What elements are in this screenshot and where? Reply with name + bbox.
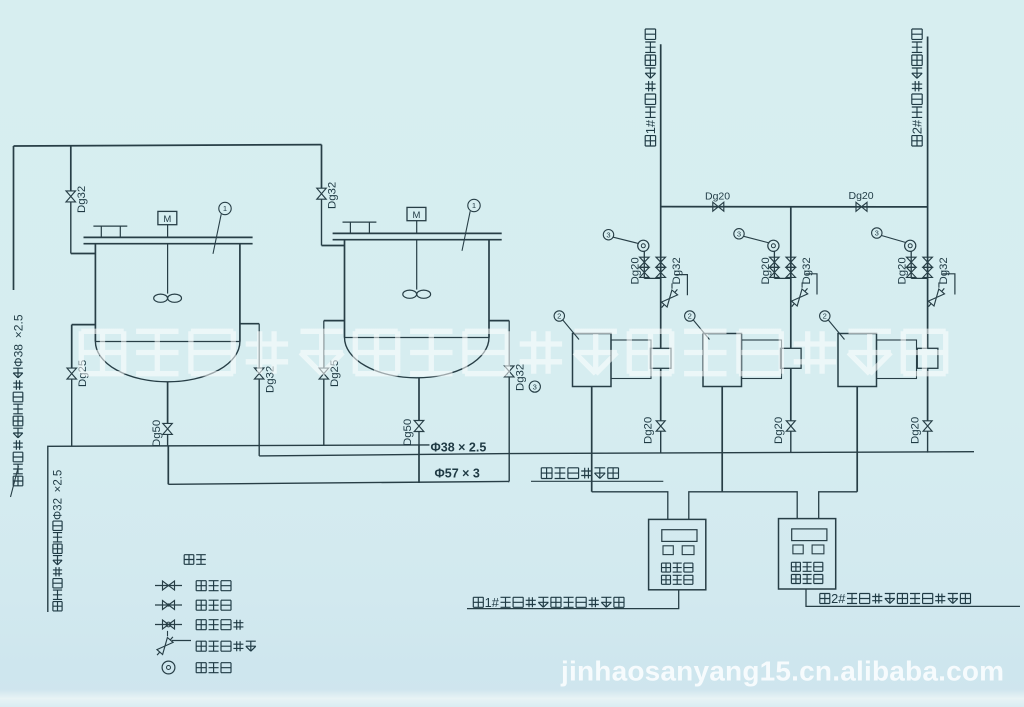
valve Dg20 overhead left <box>713 202 724 211</box>
wire: top feed header <box>14 145 322 146</box>
svg-text:×2.5: ×2.5 <box>53 470 65 493</box>
agitator impeller tank T2 <box>403 290 417 298</box>
pressure-gauge valves Dg20 <box>770 257 780 267</box>
svg-text:Dg20: Dg20 <box>849 190 874 202</box>
label: ammonia gas or liquid from cylinders F32x2.5 (rotated) <box>53 602 62 611</box>
label: feedback info from 1# deaerator drain <box>473 597 483 607</box>
wire: pump P3 discharge down <box>927 368 929 420</box>
riser isolation valves Dg32 (x=660.7) <box>656 257 666 267</box>
riser isolation valves Dg32 (x=790.8) <box>786 257 796 267</box>
label: on-site demin water or condensate F38x2.5 (rotated) <box>13 476 23 486</box>
legend stop valve symbol <box>155 585 182 587</box>
leader to gauge pump2 <box>744 236 770 243</box>
svg-text:Dg20: Dg20 <box>910 417 922 444</box>
wire: control run pump1 to controller1 <box>592 492 668 520</box>
tank T1 shell <box>94 244 96 342</box>
wire: feedback signal line 2 <box>806 589 1020 607</box>
callout circle 1 tank T1 <box>219 202 231 214</box>
wire: pump P2 control drop <box>721 387 723 492</box>
wire: pump suction header C <box>168 481 509 484</box>
riser isolation valves Dg32 (x=927.6) <box>923 257 933 267</box>
agitator impeller tank T1 <box>154 294 168 302</box>
wire: demin-water inlet drop <box>13 146 15 290</box>
svg-text:2: 2 <box>688 312 692 321</box>
agitator shaft tank T1 <box>167 244 169 294</box>
svg-text:Dg32: Dg32 <box>938 257 950 284</box>
regulator ACU1 label line1 <box>662 563 671 572</box>
tank T1 dished bottom <box>95 342 240 382</box>
valve Dg20 overhead right <box>856 202 867 211</box>
callout circle 2 pump P2 <box>685 311 695 321</box>
label: to 1# boiler deaerator downpipe (rotated) <box>645 136 655 146</box>
svg-text:Dg20: Dg20 <box>705 191 730 203</box>
valve Dg20 pump P3 discharge <box>923 421 932 431</box>
tank T1 lid nozzle <box>100 226 102 237</box>
svg-text:Dg32: Dg32 <box>327 182 339 209</box>
pressure-gauge valves Dg20 <box>640 257 650 267</box>
callout circle 3 near tank T2 right valve <box>529 381 540 392</box>
svg-text:Dg20: Dg20 <box>643 417 655 444</box>
legend spring safety valve text <box>196 641 206 651</box>
wire: tank1 feed horizontal <box>71 253 96 255</box>
automatic regulator ACU2 box <box>779 519 836 589</box>
svg-text:1#: 1# <box>643 119 658 134</box>
valve Dg25 tank T1 left <box>67 368 77 379</box>
svg-text:Φ38: Φ38 <box>11 344 25 367</box>
tank T2 lid <box>333 232 502 234</box>
regulator ACU1 display <box>662 530 697 542</box>
regulator ACU2 buttons <box>793 545 803 554</box>
wire: tank T1 left branch down <box>71 325 73 369</box>
svg-text:×2.5: ×2.5 <box>11 314 25 338</box>
tank T2 shell <box>344 240 346 338</box>
watermark: company name <box>81 331 123 373</box>
wire: tank2 feed drop <box>321 145 323 189</box>
wire: controller1 to controller2 run via pump2 <box>689 492 797 520</box>
regulator ACU1 label line2 <box>662 575 671 584</box>
wire: overhead header <box>661 206 928 208</box>
svg-text:Φ32: Φ32 <box>53 498 65 520</box>
leader line callout 1 <box>213 214 221 254</box>
wire: controller2 right stub to pump3 <box>819 492 858 519</box>
svg-text:2: 2 <box>823 312 827 321</box>
pressure gauge <box>905 240 916 251</box>
gauge branch pipe <box>774 277 790 279</box>
underline of blowdown label <box>531 480 663 482</box>
tank T2 dished bottom <box>345 338 490 378</box>
wire: tank T1 bottom outlet <box>167 382 169 424</box>
svg-text:Dg20: Dg20 <box>773 417 785 444</box>
wire: tank T2 left branch down <box>323 321 325 369</box>
node: ammonia feed corner <box>48 445 430 612</box>
svg-text:Φ57 × 3: Φ57 × 3 <box>435 467 480 481</box>
svg-text:jinhaosanyang15.cn.alibaba.com: jinhaosanyang15.cn.alibaba.com <box>560 656 1004 687</box>
legend pressure gauge text <box>196 663 206 673</box>
safety valve outlet bracket <box>942 274 955 295</box>
leader to gauge pump3 <box>882 236 907 243</box>
svg-text:Dg32: Dg32 <box>76 186 88 213</box>
metering pump P1 gear housing <box>611 340 651 379</box>
svg-text:Dg50: Dg50 <box>151 420 163 447</box>
svg-text:Dg50: Dg50 <box>402 419 414 446</box>
leader callout 2 pump P1 <box>563 320 579 340</box>
agitator motor M tank T1 <box>158 211 177 224</box>
valve Dg32 tank2 feed <box>317 188 326 199</box>
svg-text:3: 3 <box>737 230 741 239</box>
metering pump P3 head <box>917 348 938 368</box>
legend gauge valve symbol <box>155 624 182 626</box>
svg-text:M: M <box>412 210 420 221</box>
safety valve pump2 riser <box>792 289 808 306</box>
metering pump P1 motor body <box>573 334 612 387</box>
leader callout 2 pump P3 <box>828 320 844 340</box>
svg-text:Φ38 × 2.5: Φ38 × 2.5 <box>431 441 487 455</box>
legend pressure gauge symbol <box>162 661 175 674</box>
valve Dg32 tank T1 right <box>254 368 264 379</box>
wire: tank T2 right branch down <box>508 321 510 366</box>
automatic regulator ACU1 box <box>649 519 706 589</box>
pressure gauge <box>768 240 779 251</box>
callout circle 1 tank T2 <box>468 199 480 211</box>
wire: tank T2 left side stub <box>324 320 345 322</box>
valve Dg32 tank1 feed <box>66 191 76 202</box>
legend stop valve text <box>196 581 206 591</box>
tank T2 lid nozzle <box>349 222 351 233</box>
safety valve pump1 riser <box>661 290 677 307</box>
metering pump P1 head <box>650 348 671 368</box>
svg-text:1: 1 <box>223 204 227 213</box>
leader line callout 1 tank T2 <box>462 211 470 251</box>
wire: tank2 feed horizontal <box>322 245 345 247</box>
svg-text:Dg20: Dg20 <box>630 257 642 284</box>
label: feedback info from 2# deaerator drain <box>820 594 830 604</box>
gauge branch pipe <box>644 277 660 279</box>
legend check valve text <box>196 600 206 610</box>
legend spring safety valve symbol <box>157 638 173 655</box>
wire: riser to 2# boiler deaerator <box>927 37 929 349</box>
metering pump P3 motor body <box>838 334 877 387</box>
valve Dg32 tank T2 right <box>504 366 514 377</box>
wire: tank T1 left side stub <box>72 324 96 326</box>
leader callout 2 pump P2 <box>693 320 709 340</box>
safety valve outlet bracket <box>805 274 817 295</box>
wire: tank T1 right side stub <box>240 323 259 325</box>
regulator ACU2 label line1 <box>791 562 800 571</box>
valve Dg50 tank T1 outlet <box>163 423 173 434</box>
svg-text:2#: 2# <box>910 119 925 134</box>
label: blowdown to sewer <box>541 468 552 479</box>
safety valve pump3 riser <box>928 289 944 306</box>
svg-text:3: 3 <box>606 230 610 239</box>
callout circle 2 pump P3 <box>820 311 830 321</box>
metering pump P2 gear housing <box>742 340 782 379</box>
metering pump P2 head <box>781 348 802 368</box>
svg-text:Dg32: Dg32 <box>801 257 813 284</box>
wire: pump P1 discharge down <box>660 368 662 420</box>
svg-text:1: 1 <box>472 201 476 210</box>
wire: tank T2 bottom outlet <box>418 378 420 421</box>
callout circle 3 gauge pump1 <box>603 230 613 240</box>
svg-text:M: M <box>163 214 171 225</box>
callout circle 2 pump P1 <box>554 311 564 321</box>
label: to 2# boiler deaerator downpipe (rotated) <box>912 136 922 146</box>
regulator ACU2 display <box>792 529 827 541</box>
wire: riser to 1# boiler deaerator <box>660 44 662 349</box>
valve Dg20 pump P1 discharge <box>656 421 665 431</box>
wire: pump P3 control drop <box>856 387 858 492</box>
legend title <box>184 555 194 565</box>
tank T1 lid <box>84 236 253 238</box>
svg-text:3: 3 <box>533 382 537 391</box>
svg-text:Dg32: Dg32 <box>671 257 683 284</box>
leader to gauge pump1 <box>613 237 639 243</box>
valve Dg20 pump P2 discharge <box>786 421 795 431</box>
svg-text:2: 2 <box>557 312 561 321</box>
gauge branch pipe <box>911 277 927 279</box>
svg-text:1#: 1# <box>485 595 500 610</box>
svg-text:Dg20: Dg20 <box>897 257 909 284</box>
svg-text:Dg20: Dg20 <box>760 257 772 284</box>
wire: tank T1 right branch down <box>258 324 260 368</box>
callout circle 3 gauge pump2 <box>734 229 744 239</box>
agitator motor M tank T2 <box>407 207 426 220</box>
wire: feedback signal line 1 <box>467 590 679 609</box>
pressure-gauge valves Dg20 <box>907 257 917 267</box>
wire: pump P2 discharge down <box>790 368 792 420</box>
svg-text:2#: 2# <box>831 591 846 606</box>
regulator ACU2 label line2 <box>791 575 800 584</box>
pressure gauge <box>638 240 649 251</box>
svg-text:Dg32: Dg32 <box>514 364 526 391</box>
metering pump P2 motor body <box>703 334 742 387</box>
svg-text:3: 3 <box>875 229 879 238</box>
wire: drop from header A to suction header C at tank T2 <box>418 445 420 483</box>
regulator ACU1 buttons <box>663 546 673 555</box>
tick under demin label <box>11 466 19 497</box>
wire: tank T2 right side stub <box>489 320 509 322</box>
agitator shaft tank T2 <box>416 240 418 290</box>
valve Dg25 tank T2 left <box>319 368 329 379</box>
wire: riser pump2 to overhead <box>790 207 792 349</box>
wire: tank1 feed drop <box>70 146 72 191</box>
valve Dg50 tank T2 outlet <box>414 421 424 432</box>
wire: pump P1 control drop <box>591 387 593 492</box>
callout circle 3 gauge pump3 <box>872 228 882 238</box>
safety valve outlet bracket <box>675 275 687 296</box>
wire: blowdown header B to sewer <box>259 452 974 456</box>
wire: drop from header A to suction header C at tank T1 <box>167 446 169 484</box>
legend check valve symbol <box>155 604 182 606</box>
legend gauge valve text <box>196 620 206 630</box>
metering pump P3 gear housing <box>877 340 917 379</box>
